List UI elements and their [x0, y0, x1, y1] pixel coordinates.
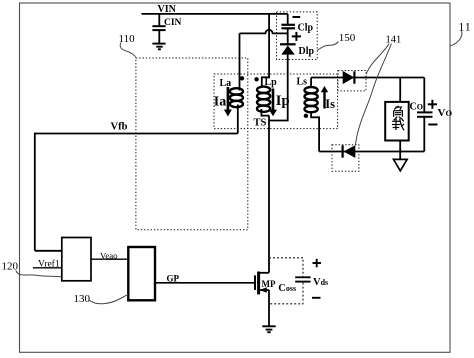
current arrow Ip — [269, 89, 290, 117]
svg-text:130: 130 — [74, 293, 91, 305]
dashed box transformer TS — [214, 74, 338, 129]
winding Ls — [305, 78, 318, 113]
label 141 — [356, 34, 402, 144]
current arrow Is — [321, 86, 335, 111]
svg-text:MP: MP — [262, 279, 276, 289]
transistor MP (NMOS) — [255, 272, 276, 295]
capacitor CIN — [152, 14, 181, 43]
svg-text:Vref1: Vref1 — [38, 258, 60, 269]
wire output bottom — [319, 151, 424, 153]
wire Lp top lead from VIN — [262, 14, 269, 87]
label 120 — [2, 260, 62, 277]
wire Ls bottom lead — [311, 111, 319, 152]
dashed box 110 — [136, 58, 248, 230]
dot Lp polarity — [254, 77, 258, 81]
load box (fuzai) — [385, 78, 409, 160]
wire CO branch right — [423, 78, 425, 112]
label 110 — [119, 33, 137, 58]
svg-text:Vfb: Vfb — [111, 122, 128, 133]
minus sign (Clp) — [293, 16, 301, 18]
dashed connection Coss — [269, 258, 303, 304]
ground (MOSFET source) — [262, 326, 275, 332]
wire drain vertical (Lp bottom to MOSFET drain) — [268, 116, 270, 273]
plus sign (Vds) — [313, 259, 322, 268]
dot La polarity — [240, 76, 244, 80]
wire Lp bottom lead — [261, 109, 269, 116]
winding Lp — [257, 87, 270, 112]
driver block 130 — [128, 247, 155, 300]
svg-text:141: 141 — [386, 34, 402, 45]
svg-text:Dlp: Dlp — [299, 46, 315, 57]
dashed box top rectifier diode — [338, 71, 366, 91]
diode Dlp — [280, 44, 315, 57]
svg-text:Lp: Lp — [265, 77, 278, 88]
svg-text:CIN: CIN — [164, 18, 182, 28]
wire GP — [155, 282, 255, 284]
capacitor CO — [417, 112, 433, 151]
dashed box 150 (clamp) — [277, 12, 318, 60]
minus sign (VO) — [428, 124, 437, 126]
dot Ls polarity — [304, 114, 308, 118]
current arrow Ia — [214, 87, 232, 117]
svg-text:Clp: Clp — [298, 22, 314, 33]
svg-text:Ls: Ls — [297, 77, 308, 88]
svg-text:Vds: Vds — [313, 277, 328, 288]
wire La top lead — [239, 33, 241, 90]
capacitor Clp — [281, 14, 313, 44]
svg-text:VO: VO — [438, 107, 453, 119]
diode D1 (top rectifier) — [343, 71, 355, 84]
svg-text:VIN: VIN — [158, 4, 177, 15]
diode D2 (bottom) — [343, 145, 356, 158]
ground (CIN) — [152, 44, 165, 50]
plus sign (VO) — [428, 100, 437, 109]
op-amp block 120 (error amplifier) — [62, 238, 91, 281]
capacitor Coss — [278, 277, 310, 294]
label 150 — [317, 32, 356, 50]
wire Dlp anode to drain — [269, 55, 288, 121]
wire Vref1 input — [33, 267, 62, 269]
wire source to ground — [268, 290, 270, 326]
svg-text:Ia: Ia — [214, 95, 226, 110]
VIN rail wire — [142, 13, 288, 15]
dashed box bottom freewheel diode — [332, 145, 359, 172]
wire clamp node to La (with hop) — [240, 30, 288, 34]
svg-text:Coss: Coss — [278, 283, 296, 294]
minus sign (Vds) — [312, 297, 321, 299]
wire La bottom lead — [237, 105, 239, 134]
svg-text:TS: TS — [254, 118, 267, 129]
svg-text:GP: GP — [167, 274, 180, 284]
svg-text:11: 11 — [459, 22, 472, 34]
ground (load, triangle) — [394, 159, 408, 170]
svg-text:Veao: Veao — [100, 250, 118, 260]
plus sign (Clp) — [292, 32, 301, 41]
label 130 — [74, 293, 129, 305]
label 11 — [450, 22, 471, 46]
wire Vfb — [35, 133, 238, 251]
wire Veao — [91, 258, 128, 260]
svg-text:La: La — [220, 78, 232, 89]
svg-text:150: 150 — [339, 32, 356, 44]
svg-text:Is: Is — [325, 97, 335, 111]
wire output top (Ls to CO) — [311, 77, 424, 79]
svg-text:CO: CO — [410, 102, 423, 113]
winding La — [230, 88, 243, 107]
